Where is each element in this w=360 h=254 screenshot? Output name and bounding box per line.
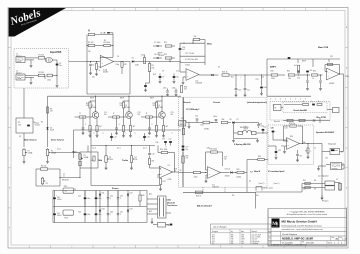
svg-text:C7 100n: C7 100n: [154, 42, 160, 44]
svg-text:Treble: Treble: [122, 159, 129, 162]
svg-text:C13: C13: [138, 112, 141, 114]
svg-text:4148: 4148: [50, 130, 54, 132]
svg-text:D14: D14: [130, 209, 133, 211]
svg-text:File: File: [302, 242, 304, 244]
svg-text:C16: C16: [162, 139, 165, 141]
svg-text:MS: MS: [231, 241, 233, 243]
svg-text:11/99: 11/99: [241, 239, 245, 241]
svg-text:1k: 1k: [312, 78, 314, 80]
svg-text:470uF: 470uF: [244, 128, 249, 130]
svg-text:C14: C14: [147, 137, 150, 139]
svg-text:C29: C29: [224, 157, 227, 159]
svg-text:C21: C21: [212, 235, 215, 237]
svg-text:(Low 3.): (Low 3.): [274, 183, 280, 185]
svg-text:(C+02) 10u-16V: (C+02) 10u-16V: [185, 59, 199, 61]
svg-text:C35: C35: [212, 239, 215, 241]
svg-text:MUSIC SERV: MUSIC SERV: [272, 226, 279, 228]
svg-text:4558D: 4558D: [225, 176, 231, 178]
svg-text:C1: C1: [33, 122, 35, 124]
svg-text:Input-PCB: Input-PCB: [50, 51, 62, 54]
svg-text:R26 100k: R26 100k: [210, 148, 217, 150]
svg-text:470: 470: [124, 64, 127, 66]
svg-text:Integrator: Integrator: [328, 143, 336, 146]
svg-text:C26: C26: [244, 126, 247, 128]
svg-text:1: 1: [311, 151, 312, 153]
svg-text:C6: C6: [117, 56, 119, 58]
svg-text:10k: 10k: [288, 78, 291, 80]
svg-text:changed: changed: [212, 231, 218, 233]
svg-text:R14: R14: [120, 103, 123, 105]
svg-text:R41: R41: [303, 180, 306, 182]
svg-text:MS: MS: [231, 243, 233, 245]
svg-text:AMP1: AMP1: [270, 66, 277, 69]
svg-text:Transformer: Transformer: [167, 205, 178, 207]
svg-text:220k: 220k: [120, 105, 124, 107]
svg-text:C41: C41: [57, 213, 60, 215]
svg-text:(obsolete/optional): (obsolete/optional): [247, 101, 267, 104]
svg-text:R6 100k: R6 100k: [104, 42, 110, 44]
svg-text:100n: 100n: [87, 214, 91, 216]
svg-text:Rev PCB: Rev PCB: [317, 117, 327, 119]
svg-text:R33 22k: R33 22k: [289, 123, 295, 125]
svg-text:C21: C21: [247, 90, 250, 92]
svg-text:4700u: 4700u: [57, 215, 62, 217]
svg-text:47u: 47u: [310, 70, 313, 72]
svg-text:C12: C12: [114, 137, 117, 139]
svg-text:IC3: IC3: [212, 185, 215, 187]
svg-text:10u: 10u: [264, 127, 267, 129]
svg-text:LM1458: LM1458: [196, 83, 203, 85]
svg-text:C47: C47: [120, 212, 123, 214]
svg-text:by: by: [231, 231, 233, 233]
svg-text:C6: C6: [46, 183, 48, 185]
svg-text:C15: C15: [171, 112, 174, 114]
svg-text:R40 10: R40 10: [196, 196, 201, 198]
svg-text:Reverb: Reverb: [183, 102, 191, 104]
svg-text:4k7: 4k7: [50, 111, 53, 113]
svg-text:List of changes: List of changes: [213, 226, 226, 229]
svg-text:220k: 220k: [47, 80, 51, 82]
svg-text:D12: D12: [130, 193, 133, 195]
svg-text:new 22n: new 22n: [252, 239, 258, 241]
svg-text:TQ2-12: TQ2-12: [35, 125, 41, 127]
svg-text:R45: R45: [142, 195, 145, 197]
svg-text:DL-4: DL-4: [117, 148, 121, 150]
svg-text:15k: 15k: [152, 67, 155, 69]
svg-text:SP+: SP+: [256, 195, 259, 197]
svg-text:CC-XXReady?: CC-XXReady?: [186, 109, 200, 111]
svg-text:Circuit: Circuit: [213, 101, 220, 104]
svg-text:C9: C9: [162, 71, 164, 73]
svg-text:1: 1: [298, 161, 299, 163]
svg-text:R2 1M: R2 1M: [39, 72, 45, 74]
svg-text:22k: 22k: [88, 51, 91, 53]
svg-text:C44: C44: [110, 196, 113, 198]
svg-text:100u: 100u: [264, 87, 268, 89]
svg-text:Main PCB: Main PCB: [318, 47, 329, 49]
svg-text:100n: 100n: [87, 198, 91, 200]
svg-text:4558D: 4558D: [329, 83, 335, 85]
svg-text:Main Volume: Main Volume: [24, 140, 38, 142]
svg-text:R3 47k: R3 47k: [41, 166, 47, 168]
svg-text:(Low 3.): (Low 3.): [259, 183, 265, 185]
svg-text:25k: 25k: [135, 159, 138, 161]
svg-text:C17 2.2uM: C17 2.2uM: [185, 53, 194, 55]
svg-text:(4k66): (4k66): [237, 177, 242, 179]
svg-text:100k: 100k: [271, 78, 275, 80]
svg-text:K1: K1: [341, 152, 343, 154]
svg-text:4558D: 4558D: [204, 129, 210, 131]
svg-text:10u: 10u: [186, 149, 189, 151]
svg-text:R17: R17: [212, 237, 215, 239]
svg-text:6k8: 6k8: [152, 161, 155, 163]
svg-text:R29: R29: [237, 169, 240, 171]
svg-text:4k7: 4k7: [166, 126, 169, 128]
svg-text:C43: C43: [78, 212, 81, 214]
svg-text:C8 47n: C8 47n: [154, 54, 160, 56]
svg-text:D11: D11: [102, 193, 105, 195]
svg-text:C26: C26: [181, 118, 184, 120]
svg-text:1 - 46: 1 - 46: [342, 239, 347, 241]
svg-text:7815: 7815: [64, 186, 68, 188]
svg-text:LS1: LS1: [325, 158, 328, 160]
svg-text:10k: 10k: [141, 55, 144, 57]
svg-text:R13: R13: [86, 103, 89, 105]
svg-text:C20: C20: [238, 90, 241, 92]
svg-text:Phones: Phones: [322, 201, 328, 203]
svg-text:4u7: 4u7: [294, 65, 297, 67]
svg-text:C30: C30: [297, 78, 300, 80]
svg-text:C32: C32: [330, 56, 333, 58]
svg-text:DL-3: DL-3: [143, 148, 147, 150]
svg-text:R5: R5: [104, 40, 106, 42]
svg-text:Bornkampsweg 8, D-22765 Hambur: Bornkampsweg 8, D-22765 Hamburg, Germany: [282, 224, 322, 227]
svg-text:/C-insulated jack!: /C-insulated jack!: [268, 170, 285, 173]
svg-text:IC5: IC5: [65, 191, 68, 193]
svg-text:REV9: REV9: [90, 98, 94, 100]
svg-text:Circuit Diagram: Circuit Diagram: [282, 233, 297, 236]
svg-text:ext. Speaker: ext. Speaker: [318, 175, 329, 178]
svg-text:7/05: 7/05: [241, 243, 244, 245]
svg-text:D5: D5: [218, 67, 220, 69]
svg-text:C17: C17: [169, 139, 172, 141]
svg-text:was 2.2 100k: was 2.2 100k: [252, 237, 261, 239]
svg-text:1k: 1k: [174, 171, 176, 173]
svg-text:+: +: [276, 131, 277, 133]
svg-text:BA-CC-Ready?: BA-CC-Ready?: [197, 205, 213, 208]
svg-text:10u: 10u: [59, 65, 62, 67]
svg-text:D7: D7: [237, 119, 239, 121]
svg-text:D3: D3: [132, 58, 134, 60]
svg-text:R20 1k: R20 1k: [222, 72, 228, 74]
svg-text:REV9: REV9: [120, 98, 124, 100]
svg-text:7/99: 7/99: [241, 237, 244, 239]
svg-text:R24: R24: [201, 125, 204, 127]
svg-text:D10: D10: [212, 241, 215, 243]
svg-text:REV9: REV9: [302, 61, 306, 63]
svg-text:SP-: SP-: [232, 195, 235, 197]
svg-text:1k: 1k: [99, 70, 101, 72]
svg-text:R12: R12: [164, 54, 167, 56]
svg-text:C34: C34: [285, 128, 288, 130]
svg-text:10k: 10k: [186, 158, 189, 160]
svg-text:7915: 7915: [64, 218, 68, 220]
svg-text:D6: D6: [230, 119, 232, 121]
svg-text:TR1: TR1: [168, 200, 171, 202]
svg-text:R15: R15: [153, 103, 156, 105]
svg-text:10n: 10n: [224, 159, 227, 161]
svg-text:C24: C24: [261, 77, 264, 79]
svg-text:C10: C10: [176, 71, 179, 73]
svg-text:R7: R7: [98, 67, 100, 69]
svg-text:4k7: 4k7: [184, 89, 187, 91]
svg-text:1n: 1n: [63, 176, 65, 178]
svg-text:47n: 47n: [171, 114, 174, 116]
svg-text:J6: J6: [336, 179, 338, 181]
svg-text:C11: C11: [104, 112, 107, 114]
svg-text:C45: C45: [120, 196, 123, 198]
svg-text:NOBELS. AMP-DC-1616R: NOBELS. AMP-DC-1616R: [282, 237, 313, 241]
svg-text:R16: R16: [156, 142, 159, 144]
svg-text:D13: D13: [102, 209, 105, 211]
svg-text:R25: R25: [186, 156, 189, 158]
svg-text:C4: C4: [88, 30, 90, 32]
svg-text:C28: C28: [207, 148, 210, 150]
svg-text:C35: C35: [278, 150, 281, 152]
svg-text:4k7: 4k7: [133, 126, 136, 128]
svg-text:R10: R10: [153, 74, 156, 76]
svg-text:47n: 47n: [104, 114, 107, 116]
svg-text:Power: Power: [112, 188, 119, 190]
svg-text:220k: 220k: [86, 105, 90, 107]
svg-text:C23: C23: [256, 79, 259, 81]
svg-text:R28: R28: [250, 172, 253, 174]
svg-text:now 4u7 22uF: now 4u7 22uF: [252, 235, 262, 237]
svg-text:C46: C46: [110, 212, 113, 214]
svg-text:R5 10k: R5 10k: [88, 42, 94, 44]
svg-text:+: +: [240, 77, 241, 79]
svg-text:R0: R0: [41, 122, 43, 124]
svg-text:R18: R18: [174, 169, 177, 171]
svg-text:C10: C10: [152, 154, 155, 156]
svg-text:LT442: LT442: [185, 65, 190, 67]
svg-text:4558D: 4558D: [103, 72, 109, 74]
svg-text:C27: C27: [186, 147, 189, 149]
svg-text:22: 22: [314, 148, 316, 150]
svg-text:J5: J5: [342, 165, 344, 167]
svg-text:2u2: 2u2: [182, 49, 185, 51]
svg-text:Drive Volume: Drive Volume: [51, 139, 65, 142]
svg-text:4700u: 4700u: [57, 199, 62, 201]
svg-text:R37: R37: [305, 151, 308, 153]
svg-text:68: 68: [314, 180, 316, 182]
svg-text:R30: R30: [271, 71, 274, 73]
svg-text:4148: 4148: [135, 65, 139, 67]
svg-text:R1 1M: R1 1M: [39, 55, 45, 57]
svg-text:4k7: 4k7: [99, 126, 102, 128]
svg-text:DL-5: DL-5: [93, 148, 97, 150]
svg-text:22k: 22k: [194, 36, 197, 38]
svg-text:R33: R33: [313, 71, 316, 73]
svg-text:100n: 100n: [172, 88, 176, 90]
svg-text:New B: New B: [254, 171, 261, 173]
svg-text:10u: 10u: [92, 77, 95, 79]
svg-text:MS Music Service GmbH: MS Music Service GmbH: [282, 220, 317, 224]
svg-text:100p: 100p: [116, 64, 120, 66]
svg-text:R17: R17: [163, 181, 166, 183]
svg-text:4u66: 4u66: [194, 177, 198, 179]
svg-text:R30: R30: [258, 156, 261, 158]
svg-text:Reverb Box/SM: Reverb Box/SM: [294, 110, 308, 112]
svg-text:R21: R21: [231, 77, 234, 79]
svg-text:68: 68: [314, 189, 316, 191]
svg-text:R31: R31: [287, 71, 290, 73]
svg-text:REV9: REV9: [150, 98, 154, 100]
svg-text:10u: 10u: [176, 77, 179, 79]
svg-text:DL-6: DL-6: [57, 149, 61, 151]
svg-text:100n: 100n: [163, 88, 167, 90]
svg-text:C41: C41: [57, 197, 60, 199]
svg-text:MS: MS: [231, 237, 233, 239]
svg-text:47n: 47n: [138, 114, 141, 116]
svg-text:Bass: Bass: [73, 152, 79, 154]
svg-text:Reverb: Reverb: [274, 121, 280, 123]
svg-text:R42: R42: [303, 189, 306, 191]
svg-text:R15 100k: R15 100k: [160, 149, 167, 151]
svg-text:220k: 220k: [153, 105, 157, 107]
svg-text:C36: C36: [281, 146, 284, 148]
svg-text:Speaker NL2060LT: Speaker NL2060LT: [316, 131, 335, 134]
svg-text:C42: C42: [78, 196, 81, 198]
svg-text:R35: R35: [290, 136, 293, 138]
svg-text:1/2: 1/2: [168, 165, 170, 167]
svg-text:Doc: Doc: [269, 238, 272, 240]
svg-text:J3: J3: [185, 121, 187, 123]
svg-text:C9: C9: [162, 77, 164, 79]
svg-text:4/00: 4/00: [241, 241, 244, 243]
svg-text:Input 1: Input 1: [16, 54, 22, 57]
svg-text:Size: Size: [332, 237, 335, 239]
svg-text:© Copyright 1997 - ALL RIGHTS: © Copyright 1997 - ALL RIGHTS RESERVED: [289, 210, 325, 213]
svg-text:22n: 22n: [300, 156, 303, 158]
svg-text:C25: C25: [195, 116, 198, 118]
svg-text:250k: 250k: [109, 159, 113, 161]
svg-text:100n: 100n: [213, 116, 217, 118]
svg-text:C33: C33: [271, 128, 274, 130]
svg-text:C7: C7: [63, 174, 65, 176]
svg-text:Main: Main: [207, 44, 213, 46]
svg-text:MS: MS: [231, 235, 233, 237]
svg-text:P2: P2: [212, 243, 214, 245]
svg-text:+: +: [56, 195, 57, 197]
svg-text:2-Spring HM-128: 2-Spring HM-128: [234, 143, 251, 146]
svg-text:R11: R11: [164, 42, 167, 44]
svg-text:3k3: 3k3: [222, 119, 225, 121]
svg-text:1/2 IC3: 1/2 IC3: [225, 169, 231, 171]
svg-text:C5: C5: [92, 65, 94, 67]
svg-text:R36: R36: [303, 142, 306, 144]
svg-text:(Drum Jack): (Drum Jack): [264, 187, 274, 190]
svg-text:REV(off): REV(off): [62, 180, 69, 182]
svg-text:C30: C30: [259, 124, 262, 126]
svg-text:7/98: 7/98: [241, 235, 244, 237]
